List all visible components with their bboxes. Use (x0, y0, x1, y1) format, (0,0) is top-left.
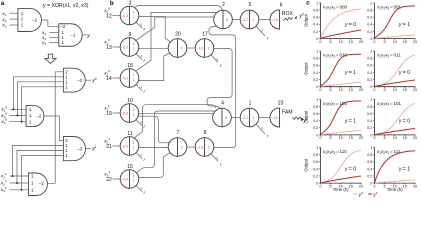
svg-text:20: 20 (413, 136, 417, 140)
svg-text:1: 1 (133, 77, 135, 81)
svg-text:–3: –3 (77, 147, 82, 152)
svg-text:Output: Output (304, 158, 309, 172)
svg-text:0: 0 (373, 184, 375, 188)
svg-text:–0.2: –0.2 (122, 45, 129, 49)
svg-text:y: y (86, 33, 90, 39)
svg-text:5: 5 (383, 136, 385, 140)
svg-text:y = 0: y = 0 (398, 70, 410, 76)
svg-text:0: 0 (316, 37, 318, 41)
svg-text:1: 1 (133, 174, 135, 178)
svg-text:–1.6: –1.6 (197, 46, 204, 50)
svg-text:3: 3 (181, 145, 183, 149)
svg-text:2: 2 (261, 127, 263, 131)
svg-text:y = 1: y = 1 (344, 118, 356, 124)
svg-text:13: 13 (106, 45, 112, 51)
svg-text:21: 21 (106, 144, 112, 150)
svg-text:20: 20 (359, 184, 363, 188)
svg-text:1: 1 (370, 50, 372, 54)
svg-text:0: 0 (319, 184, 321, 188)
svg-text:5: 5 (225, 116, 227, 120)
svg-text:10: 10 (393, 40, 397, 44)
svg-text:10: 10 (339, 88, 343, 92)
svg-text:0.4: 0.4 (313, 167, 318, 171)
svg-text:Time (h): Time (h) (333, 187, 349, 192)
svg-text:b: b (110, 0, 114, 7)
svg-text:0: 0 (316, 85, 318, 89)
svg-text:0.6: 0.6 (367, 64, 372, 68)
svg-text:4: 4 (140, 86, 142, 90)
svg-text:2: 2 (222, 2, 225, 8)
svg-text:14: 14 (106, 76, 112, 82)
svg-text:–2: –2 (32, 18, 37, 23)
svg-text:0.4: 0.4 (367, 23, 372, 27)
svg-text:0.6: 0.6 (367, 112, 372, 116)
svg-text:5: 5 (383, 88, 385, 92)
svg-text:15: 15 (403, 184, 407, 188)
svg-text:x3: x3 (41, 41, 46, 46)
svg-text:0.6: 0.6 (313, 160, 318, 164)
svg-text:0: 0 (316, 133, 318, 137)
svg-text:7: 7 (177, 130, 180, 136)
svg-text:5: 5 (329, 136, 331, 140)
svg-text:20: 20 (413, 40, 417, 44)
svg-text:5: 5 (226, 18, 228, 22)
svg-text:5: 5 (329, 40, 331, 44)
svg-text:11: 11 (127, 131, 132, 137)
svg-text:4: 4 (140, 121, 142, 125)
svg-text:–0.2: –0.2 (122, 111, 129, 115)
svg-text:0.2: 0.2 (367, 174, 372, 178)
svg-text:19: 19 (106, 111, 112, 117)
svg-text:–1.6: –1.6 (197, 145, 204, 149)
svg-text:15: 15 (349, 184, 353, 188)
svg-text:15: 15 (403, 40, 407, 44)
svg-text:Time (h): Time (h) (387, 187, 403, 192)
svg-text:15: 15 (349, 88, 353, 92)
svg-text:4: 4 (216, 157, 218, 161)
svg-text:15: 15 (403, 88, 407, 92)
svg-text:0.4: 0.4 (367, 119, 372, 123)
svg-text:10: 10 (339, 40, 343, 44)
svg-text:18: 18 (127, 63, 133, 69)
svg-text:Output: Output (304, 110, 309, 124)
svg-text:5: 5 (329, 88, 331, 92)
svg-text:0: 0 (319, 88, 321, 92)
svg-text:8: 8 (204, 130, 207, 136)
svg-text:0.4: 0.4 (313, 119, 318, 123)
svg-text:10: 10 (393, 88, 397, 92)
svg-text:1: 1 (133, 15, 135, 19)
svg-text:0.6: 0.6 (313, 16, 318, 20)
svg-text:y = 0: y = 0 (398, 118, 410, 124)
svg-text:–0.2: –0.2 (122, 177, 129, 181)
svg-text:–2: –2 (39, 181, 44, 186)
svg-text:2: 2 (208, 145, 210, 149)
svg-text:1: 1 (133, 145, 135, 149)
svg-text:0.6: 0.6 (313, 64, 318, 68)
svg-text:1: 1 (133, 112, 135, 116)
svg-text:0.2: 0.2 (367, 30, 372, 34)
svg-text:17: 17 (202, 31, 208, 37)
svg-text:12: 12 (106, 13, 112, 19)
svg-text:0.8: 0.8 (367, 8, 372, 12)
svg-text:20: 20 (413, 184, 417, 188)
svg-text:y = 0: y = 0 (344, 22, 356, 28)
svg-text:–2: –2 (36, 114, 41, 119)
svg-text:1: 1 (249, 101, 252, 107)
svg-text:4: 4 (140, 23, 142, 27)
svg-text:1: 1 (316, 50, 318, 54)
svg-text:–2.7: –2.7 (242, 18, 249, 22)
svg-text:–3: –3 (77, 78, 82, 83)
svg-text:0: 0 (373, 88, 375, 92)
svg-text:4: 4 (216, 58, 218, 62)
svg-text:0: 0 (370, 85, 372, 89)
svg-text:–1.5: –1.5 (271, 18, 278, 22)
svg-text:a: a (1, 0, 5, 7)
svg-text:1: 1 (133, 73, 135, 77)
svg-text:–0.2: –0.2 (122, 144, 129, 148)
svg-text:0.8: 0.8 (367, 57, 372, 61)
svg-text:0: 0 (370, 133, 372, 137)
svg-text:0.8: 0.8 (313, 153, 318, 157)
svg-text:–2.7: –2.7 (242, 116, 249, 120)
svg-text:10: 10 (339, 136, 343, 140)
svg-text:0.6: 0.6 (367, 16, 372, 20)
svg-text:0: 0 (370, 37, 372, 41)
svg-text:20: 20 (359, 136, 363, 140)
svg-text:0: 0 (316, 182, 318, 186)
svg-text:0.4: 0.4 (313, 71, 318, 75)
svg-text:0.8: 0.8 (367, 153, 372, 157)
svg-text:20: 20 (175, 31, 181, 37)
svg-text:23: 23 (278, 100, 284, 106)
svg-text:1: 1 (370, 1, 372, 5)
svg-text:0: 0 (370, 182, 372, 186)
svg-text:0.2: 0.2 (367, 126, 372, 130)
svg-text:6: 6 (280, 2, 283, 8)
svg-text:ROX: ROX (282, 11, 294, 17)
svg-text:0.2: 0.2 (313, 30, 318, 34)
svg-text:0.8: 0.8 (313, 57, 318, 61)
svg-text:0.4: 0.4 (367, 71, 372, 75)
svg-text:–0.2: –0.2 (122, 14, 129, 18)
svg-text:1: 1 (133, 46, 135, 50)
svg-text:1: 1 (370, 146, 372, 150)
svg-text:2: 2 (208, 46, 210, 50)
svg-text:15: 15 (349, 40, 353, 44)
svg-text:0.8: 0.8 (313, 8, 318, 12)
svg-text:15: 15 (349, 136, 353, 140)
svg-text:20: 20 (413, 88, 417, 92)
svg-text:0: 0 (319, 40, 321, 44)
svg-text:0: 0 (319, 136, 321, 140)
svg-text:20: 20 (359, 88, 363, 92)
svg-text:3: 3 (181, 46, 183, 50)
svg-text:5: 5 (249, 2, 252, 8)
svg-text:10: 10 (127, 98, 133, 104)
svg-text:1: 1 (133, 42, 135, 46)
svg-text:x3: x3 (1, 24, 6, 29)
svg-text:–1.5: –1.5 (271, 116, 278, 120)
svg-text:x2: x2 (1, 18, 6, 23)
svg-text:1: 1 (370, 98, 372, 102)
svg-text:0.8: 0.8 (367, 105, 372, 109)
svg-text:0: 0 (373, 136, 375, 140)
svg-text:15: 15 (127, 164, 133, 170)
svg-text:0.2: 0.2 (313, 174, 318, 178)
svg-text:1: 1 (133, 178, 135, 182)
svg-text:0.2: 0.2 (313, 126, 318, 130)
svg-text:0.6: 0.6 (313, 112, 318, 116)
svg-text:–2: –2 (60, 24, 65, 29)
svg-text:4: 4 (140, 187, 142, 191)
svg-text:5: 5 (383, 184, 385, 188)
svg-text:1: 1 (316, 146, 318, 150)
svg-text:0.6: 0.6 (367, 160, 372, 164)
svg-text:0.8: 0.8 (313, 105, 318, 109)
svg-text:y = 1: y = 1 (344, 70, 356, 76)
svg-text:20: 20 (359, 40, 363, 44)
svg-text:0.4: 0.4 (313, 23, 318, 27)
svg-text:–1: –1 (71, 33, 76, 38)
svg-text:1: 1 (133, 108, 135, 112)
svg-text:4: 4 (140, 55, 142, 59)
svg-text:1: 1 (316, 1, 318, 5)
svg-text:10: 10 (393, 136, 397, 140)
svg-text:22: 22 (106, 177, 112, 183)
svg-text:c: c (306, 0, 310, 7)
svg-text:1: 1 (133, 10, 135, 14)
svg-text:5: 5 (383, 40, 385, 44)
svg-text:y = 1: y = 1 (398, 22, 410, 28)
svg-text:FAM: FAM (282, 110, 292, 116)
svg-text:x1: x1 (1, 12, 6, 17)
svg-text:0.4: 0.4 (367, 167, 372, 171)
svg-text:Output: Output (304, 13, 309, 27)
svg-text:1: 1 (133, 141, 135, 145)
svg-text:1: 1 (253, 116, 255, 120)
svg-text:5: 5 (329, 184, 331, 188)
svg-text:0.2: 0.2 (367, 78, 372, 82)
svg-text:y = 0: y = 0 (344, 167, 356, 173)
svg-text:1: 1 (316, 98, 318, 102)
svg-text:9: 9 (129, 32, 132, 38)
svg-text:y = 1: y = 1 (398, 167, 410, 173)
svg-text:y = XOR(x1, x2, x3): y = XOR(x1, x2, x3) (42, 3, 89, 9)
svg-text:2: 2 (261, 29, 263, 33)
svg-text:3: 3 (129, 0, 132, 6)
svg-text:0: 0 (373, 40, 375, 44)
svg-text:1: 1 (253, 18, 255, 22)
svg-text:–0.2: –0.2 (122, 76, 129, 80)
svg-text:0.2: 0.2 (313, 78, 318, 82)
svg-text:4: 4 (221, 101, 224, 107)
svg-text:15: 15 (403, 136, 407, 140)
svg-text:Output: Output (304, 62, 309, 76)
svg-text:4: 4 (140, 154, 142, 158)
